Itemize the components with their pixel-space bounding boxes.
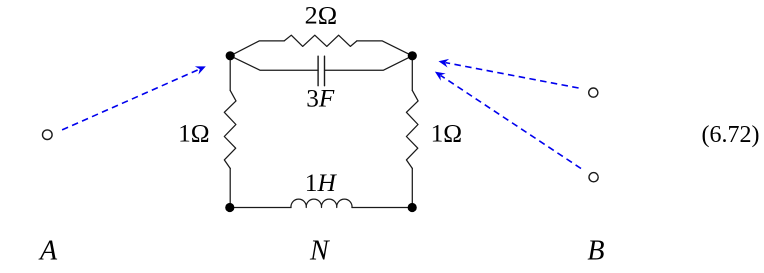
wire: bottom left lead xyxy=(230,207,291,209)
node: top-right junction xyxy=(408,51,417,60)
svg-text:1Ω: 1Ω xyxy=(431,120,463,147)
terminal A (open circle) xyxy=(43,130,53,140)
wire: right vertical bottom segment xyxy=(411,168,413,207)
wire: top branch left lead xyxy=(230,41,284,56)
node: top-left junction xyxy=(226,51,235,60)
svg-text:1Ω: 1Ω xyxy=(178,120,210,147)
wire: capacitor branch left lead xyxy=(230,56,318,71)
wire: left vertical top segment xyxy=(229,56,231,91)
wire: right vertical top segment xyxy=(411,56,413,91)
resistor 1Ω (right vertical) xyxy=(406,90,418,168)
capacitor 3F plate right xyxy=(324,56,326,85)
terminal B lower (open circle) xyxy=(589,173,598,182)
inductor 1H xyxy=(291,199,352,207)
wire: top branch right lead xyxy=(357,41,412,56)
wire: capacitor branch right lead xyxy=(325,56,413,71)
arrow: from terminal B lower to top-right node (blue dashed) xyxy=(432,68,581,169)
resistor 1Ω (left vertical) xyxy=(224,90,236,168)
svg-text:1H: 1H xyxy=(305,170,338,197)
svg-text:B: B xyxy=(587,236,604,267)
svg-text:3F: 3F xyxy=(306,86,335,113)
svg-text:N: N xyxy=(309,236,330,267)
arrow: from terminal B upper to top-right node (blue dashed) xyxy=(438,57,579,88)
wire: bottom right lead xyxy=(352,207,412,209)
arrow: from terminal A to top-left node (blue dashed) xyxy=(62,62,207,130)
svg-text:A: A xyxy=(38,236,58,267)
resistor 2Ω (top horizontal) xyxy=(284,35,357,46)
node: bottom-right junction xyxy=(408,203,417,212)
wire: left vertical bottom segment xyxy=(229,168,231,207)
node: bottom-left junction xyxy=(225,203,234,212)
svg-text:(6.72): (6.72) xyxy=(702,122,760,148)
terminal B upper (open circle) xyxy=(589,88,598,97)
capacitor 3F plate left xyxy=(317,56,319,85)
svg-text:2Ω: 2Ω xyxy=(305,2,338,29)
